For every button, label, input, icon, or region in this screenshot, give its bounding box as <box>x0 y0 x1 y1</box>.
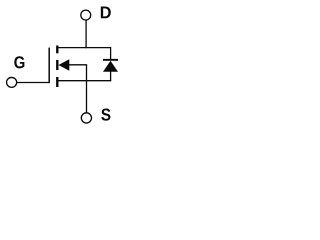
wire source lead <box>86 81 88 113</box>
label S <box>101 109 110 121</box>
wire drain rail <box>57 47 111 49</box>
transistor gate plate <box>48 48 50 84</box>
diode cathode bar <box>103 59 118 61</box>
terminal S (circle) <box>81 113 91 123</box>
label G <box>14 56 24 68</box>
wire drain lead <box>85 20 87 48</box>
transistor body arrow <box>59 59 70 70</box>
wire body lead <box>69 64 87 66</box>
wire gate lead <box>17 82 50 84</box>
wire diode cathode lead <box>110 48 112 60</box>
wire diode anode lead <box>110 72 112 82</box>
wire source rail <box>57 80 111 82</box>
terminal D (circle) <box>81 10 91 20</box>
diode anode triangle <box>103 61 118 72</box>
transistor channel bar bottom <box>56 77 58 87</box>
transistor channel bar middle <box>56 60 58 70</box>
terminal G (circle) <box>7 77 17 87</box>
transistor channel bar top <box>56 46 58 54</box>
label D <box>101 7 111 19</box>
wire body to source <box>86 65 88 81</box>
